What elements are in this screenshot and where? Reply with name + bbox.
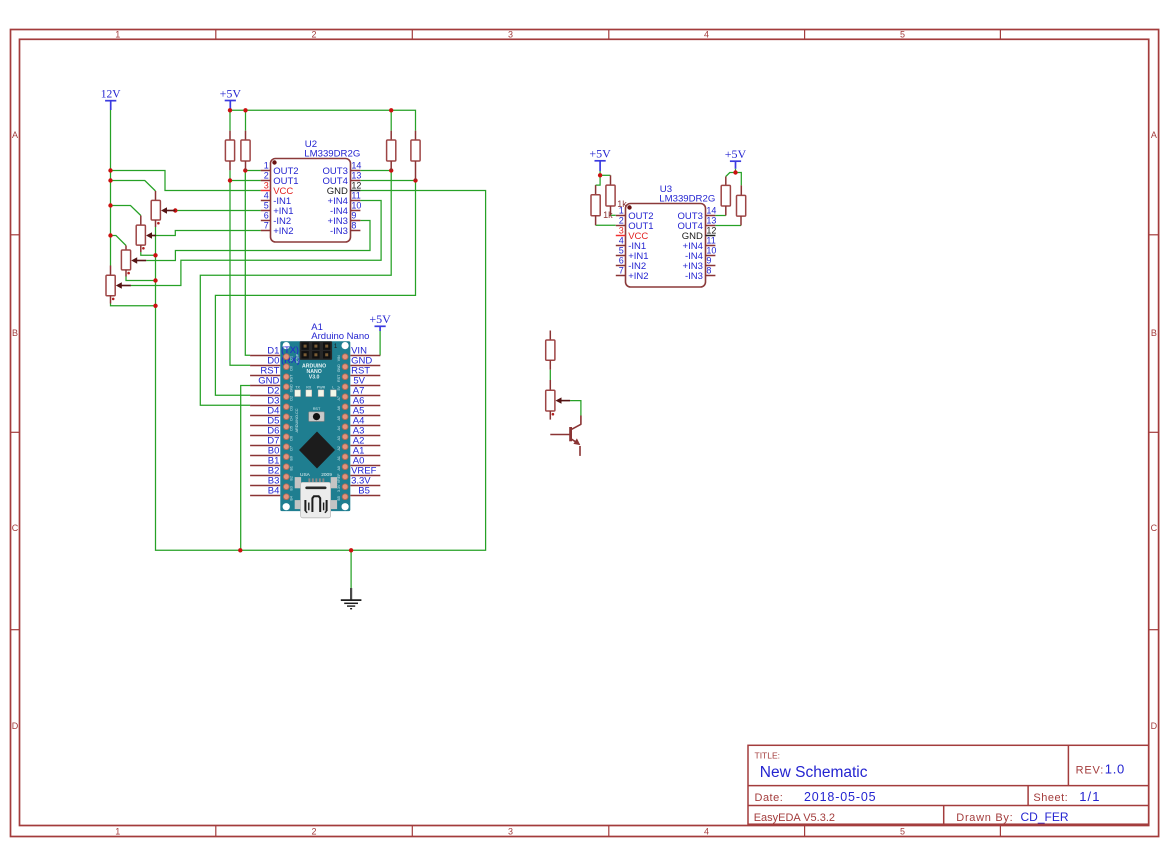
svg-text:D7: D7 — [289, 446, 293, 451]
svg-text:3: 3 — [508, 826, 513, 836]
A1 right pin B5 — [350, 485, 380, 496]
svg-text:10: 10 — [351, 201, 361, 211]
wire 12V to RP3 top — [111, 236, 127, 246]
svg-text:1.0: 1.0 — [1105, 762, 1125, 777]
power flag +5V (U2 rail) — [220, 86, 242, 110]
wire OUT1 row — [230, 180, 261, 182]
wire Arduino GND to rail — [241, 386, 250, 551]
svg-text:V3.0: V3.0 — [309, 375, 320, 381]
resistor R3 (pull-up OUT3) — [387, 131, 396, 171]
A1 left pin D1 — [250, 345, 280, 356]
A1 right pin A3 — [350, 425, 380, 436]
svg-text:6: 6 — [264, 211, 269, 221]
potentiometer RP4 — [106, 266, 131, 304]
wire RP4 wiper to U2 +IN4 pin11 — [131, 201, 381, 286]
svg-text:1: 1 — [115, 30, 120, 40]
wire RP5 wiper to Q1 collector — [570, 401, 581, 416]
A1 left pin B4 — [250, 485, 280, 496]
wire RP4 bottom to bus — [111, 304, 156, 306]
U2 pin 11 +IN4 — [328, 191, 361, 207]
svg-text:9: 9 — [706, 256, 711, 266]
U3 pin 1 OUT2 — [616, 206, 654, 222]
A1 right pin VIN — [350, 345, 380, 356]
wire R8 bottom to U3 OUT4 pin13 — [715, 225, 741, 227]
svg-text:5: 5 — [900, 826, 905, 836]
svg-text:D6: D6 — [289, 436, 293, 441]
svg-text:14: 14 — [706, 206, 716, 216]
svg-text:Drawn By:: Drawn By: — [956, 812, 1013, 824]
svg-text:Sheet:: Sheet: — [1033, 792, 1068, 804]
svg-text:D0: D0 — [289, 366, 293, 371]
svg-text:11: 11 — [351, 191, 360, 201]
svg-text:8: 8 — [706, 266, 711, 276]
svg-text:RST: RST — [313, 407, 321, 411]
svg-text:B0: B0 — [289, 456, 293, 460]
wire U3 node to R7 — [726, 173, 736, 177]
transistor Q1 (NPN) — [550, 416, 581, 456]
svg-text:-IN3: -IN3 — [685, 271, 703, 282]
svg-text:C: C — [12, 523, 19, 533]
U2 pin 2 OUT1 — [261, 171, 299, 187]
svg-text:VREF: VREF — [337, 473, 341, 483]
svg-text:New Schematic: New Schematic — [760, 764, 868, 781]
svg-text:D4: D4 — [289, 416, 293, 421]
wire rail to R2 — [245, 110, 247, 130]
svg-text:VIN: VIN — [337, 355, 341, 361]
svg-text:6: 6 — [619, 256, 624, 266]
svg-text:A0: A0 — [337, 466, 341, 470]
svg-text:1: 1 — [334, 343, 338, 350]
svg-text:8: 8 — [351, 221, 356, 231]
wire U3 node to R6 — [600, 174, 610, 176]
wire ground bus / bottom rail / U2 GND pin12 — [156, 191, 486, 551]
U2 pin 3 VCC — [261, 181, 294, 197]
svg-text:A: A — [1151, 130, 1157, 140]
svg-text:4: 4 — [264, 191, 269, 201]
A1 left pin B1 — [250, 455, 280, 466]
op-amp comparator U3 LM339DR2G body — [626, 204, 706, 288]
svg-text:EasyEDA V5.3.2: EasyEDA V5.3.2 — [754, 812, 835, 824]
wire 12V to RP2 top — [111, 206, 141, 216]
svg-text:GND: GND — [289, 384, 293, 392]
resistor R5 1k (U3 OUT1 pull-up) — [591, 185, 600, 225]
potentiometer RP3 — [121, 246, 146, 277]
svg-text:(TX): (TX) — [281, 345, 299, 355]
U2 pin 8 -IN3 — [330, 221, 360, 237]
wire R9 to RP5 — [549, 370, 551, 380]
A1 right pin 3.3V — [350, 475, 380, 486]
U3 pin 3 VCC — [616, 226, 649, 242]
wire 12V vertical line — [110, 110, 112, 266]
A1 left pin B2 — [250, 465, 280, 476]
svg-text:RST: RST — [337, 374, 341, 382]
power flag +5V (Arduino VIN) — [369, 312, 391, 331]
U3 pin 11 +IN4 — [683, 236, 716, 252]
wire U3 +5V left node — [599, 171, 601, 175]
wire R2 bottom to U2 OUT2 pin1 and Arduino D1 — [245, 171, 250, 356]
svg-text:2: 2 — [619, 216, 624, 226]
svg-text:D1: D1 — [289, 356, 293, 361]
wire rail to R1 — [229, 110, 231, 130]
svg-text:GND: GND — [337, 364, 341, 372]
A1 right pin A2 — [350, 435, 380, 446]
wire rail to R3 — [390, 110, 392, 130]
resistor R7 (U3 OUT3 pull-up) — [721, 177, 730, 216]
U3 pin 12 GND — [682, 226, 717, 242]
A1 right pin GND — [350, 355, 380, 366]
svg-text:Arduino Nano: Arduino Nano — [311, 331, 369, 342]
wire RP3 bottom to bus — [126, 277, 156, 281]
svg-text:B2: B2 — [289, 476, 293, 480]
A1 right pin 5V — [350, 375, 380, 386]
A1 left pin D6 — [250, 425, 280, 436]
svg-text:1: 1 — [264, 161, 269, 171]
svg-text:1: 1 — [619, 206, 624, 216]
A1 Arduino Nano board — [280, 341, 350, 518]
wire R6 bottom to U3 OUT2 pin1 — [611, 214, 616, 216]
border row letters A-D — [12, 130, 1158, 731]
A1 right pin A6 — [350, 395, 380, 406]
potentiometer RP1 — [151, 191, 175, 227]
svg-text:5: 5 — [264, 201, 269, 211]
svg-text:TITLE:: TITLE: — [755, 751, 781, 761]
svg-text:2009: 2009 — [321, 472, 332, 478]
svg-text:1/1: 1/1 — [1079, 789, 1100, 804]
U3 pin 4 -IN1 — [616, 236, 646, 252]
svg-text:RST: RST — [289, 374, 293, 382]
svg-text:A5: A5 — [337, 416, 341, 420]
border ruler column ticks — [216, 30, 1001, 837]
U3 pin 13 OUT4 — [678, 216, 717, 232]
wire 12V to U2 VCC pin3 — [111, 171, 261, 191]
svg-text:3.3V: 3.3V — [337, 484, 341, 492]
svg-text:4: 4 — [704, 30, 709, 40]
wire +5V to Arduino VIN — [379, 331, 381, 356]
U2 pin 5 +IN1 — [261, 201, 294, 217]
A1 left pin D2 — [250, 385, 280, 396]
potentiometer RP5 (transistor branch) — [546, 380, 570, 420]
U3 pin 9 +IN3 — [683, 256, 716, 272]
svg-text:7: 7 — [619, 266, 624, 276]
wire R5 bottom to U3 OUT1 pin2 — [596, 224, 616, 226]
resistor R8 (U3 OUT4 pull-up) — [737, 185, 746, 225]
potentiometer RP2 — [136, 216, 156, 253]
svg-text:B: B — [12, 328, 18, 338]
A1 right pin A0 — [350, 455, 380, 466]
svg-text:13: 13 — [706, 216, 716, 226]
svg-text:2: 2 — [311, 826, 316, 836]
U3 pin 7 +IN2 — [616, 266, 649, 282]
svg-text:A6: A6 — [337, 406, 341, 410]
U2 pin 9 +IN3 — [328, 211, 361, 227]
svg-text:5: 5 — [900, 30, 905, 40]
resistor R1 (pull-up OUT1) — [225, 131, 234, 171]
U2 pin 6 -IN2 — [261, 211, 291, 227]
svg-text:13: 13 — [351, 171, 361, 181]
svg-text:LM339DR2G: LM339DR2G — [304, 148, 360, 159]
svg-text:12: 12 — [351, 181, 361, 191]
A1 left pin B0 — [250, 445, 280, 456]
U2 pin 10 -IN4 — [330, 201, 361, 217]
resistor R4 (pull-up OUT4) — [411, 131, 420, 181]
U3 pin 5 +IN1 — [616, 246, 649, 262]
svg-text:D: D — [12, 721, 19, 731]
A1 left pin D7 — [250, 435, 280, 446]
svg-text:+5V: +5V — [589, 147, 611, 161]
power flag +5V (U3 right) — [725, 147, 747, 169]
wire RP1 wiper to U2 +IN1 pin5 — [175, 210, 260, 212]
svg-text:D5: D5 — [289, 426, 293, 431]
svg-text:2: 2 — [311, 30, 316, 40]
U3 pin 14 OUT3 — [678, 206, 717, 222]
A1 left pin RST — [250, 365, 280, 376]
svg-text:D3: D3 — [289, 406, 293, 411]
svg-text:TX: TX — [295, 386, 300, 390]
wire RP2 wiper to U2 +IN2 pin7 — [156, 231, 261, 236]
svg-text:B5: B5 — [358, 485, 370, 496]
border ruler row ticks — [11, 235, 1159, 630]
wire RP3 wiper to U2 +IN3 pin9 — [146, 221, 370, 261]
svg-text:B3: B3 — [289, 486, 293, 490]
A1 left pin D5 — [250, 415, 280, 426]
resistor R6 1k (U3 OUT2 pull-up) — [606, 175, 615, 215]
A1 right pin A7 — [350, 385, 380, 396]
ground symbol — [341, 588, 362, 609]
svg-text:1k: 1k — [603, 210, 613, 220]
svg-text:A3: A3 — [337, 436, 341, 440]
power flag 12V — [101, 89, 122, 111]
resistor R9 (transistor branch) — [546, 331, 555, 370]
A1 right pin A4 — [350, 415, 380, 426]
svg-text:4: 4 — [704, 826, 709, 836]
svg-text:1: 1 — [115, 826, 120, 836]
U3 pin 10 -IN4 — [685, 246, 716, 262]
wire 12V to RP1 top — [111, 181, 156, 192]
svg-text:ICSP: ICSP — [294, 354, 299, 364]
svg-text:+IN2: +IN2 — [273, 226, 293, 237]
U3 pin 6 -IN2 — [616, 256, 646, 272]
svg-text:+IN2: +IN2 — [628, 271, 648, 282]
svg-text:ARDUINO.CC: ARDUINO.CC — [295, 408, 299, 432]
svg-text:11: 11 — [706, 236, 715, 246]
wire R4 bottom to U2 OUT4 pin13 and Arduino D2 — [215, 180, 415, 395]
wire R1 bottom to U2 OUT1 pin2 and Arduino D0 — [230, 170, 250, 365]
svg-text:Date:: Date: — [755, 792, 784, 804]
wire R3 bottom to U2 OUT3 pin14 and Arduino D3 — [200, 170, 391, 405]
svg-text:LM339DR2G: LM339DR2G — [659, 193, 715, 204]
U3 pin 8 -IN3 — [685, 266, 715, 282]
A1 left pin GND — [250, 375, 280, 386]
wire ground stem — [350, 550, 352, 589]
svg-text:A7: A7 — [337, 396, 341, 400]
svg-text:B4: B4 — [268, 485, 280, 496]
border column numbers 1-5 — [115, 30, 905, 837]
svg-text:5V: 5V — [337, 386, 341, 391]
svg-text:12V: 12V — [101, 89, 122, 101]
svg-text:A1: A1 — [337, 456, 341, 460]
svg-text:B4: B4 — [289, 496, 293, 500]
U2 pin 13 OUT4 — [323, 171, 362, 187]
svg-text:-IN3: -IN3 — [330, 226, 348, 237]
wire RP2 bottom to bus — [141, 252, 156, 255]
svg-text:4: 4 — [619, 236, 624, 246]
title block frame — [748, 745, 1149, 824]
A1 left pin D0 — [250, 355, 280, 366]
A1 right pin VREF — [350, 465, 380, 476]
svg-text:5: 5 — [619, 246, 624, 256]
U2 pin 4 -IN1 — [261, 191, 291, 207]
svg-text:3: 3 — [619, 226, 624, 236]
svg-text:B1: B1 — [289, 466, 293, 470]
U2 pin 14 OUT3 — [323, 161, 362, 177]
svg-text:+5V: +5V — [220, 86, 242, 100]
power flag +5V (U3 left) — [589, 147, 611, 171]
A1 right pin A1 — [350, 445, 380, 456]
U2 pin 7 +IN2 — [261, 221, 294, 237]
svg-text:B: B — [1151, 328, 1157, 338]
wire OUT3 row — [361, 170, 392, 172]
svg-text:PWR: PWR — [317, 386, 326, 390]
svg-text:B5: B5 — [337, 496, 341, 500]
svg-text:2: 2 — [264, 171, 269, 181]
svg-text:9: 9 — [351, 211, 356, 221]
U2 pin 1 OUT2 — [261, 161, 299, 177]
A1 right pin RST — [350, 365, 380, 376]
wire U3 +5V right node — [735, 169, 737, 173]
svg-text:3: 3 — [508, 30, 513, 40]
svg-text:14: 14 — [351, 161, 361, 171]
svg-text:2018-05-05: 2018-05-05 — [804, 790, 876, 804]
svg-text:REV:: REV: — [1076, 765, 1104, 777]
svg-text:CD_FER: CD_FER — [1021, 810, 1069, 824]
svg-text:RX: RX — [306, 386, 312, 390]
svg-text:L: L — [332, 386, 334, 390]
svg-text:A4: A4 — [337, 426, 341, 430]
svg-text:A2: A2 — [337, 446, 341, 450]
wire U3 node to R8 — [736, 173, 742, 186]
svg-text:+5V: +5V — [725, 147, 747, 161]
op-amp comparator U2 LM339DR2G body — [271, 159, 351, 243]
A1 right pin A5 — [350, 405, 380, 416]
A1 left pin D3 — [250, 395, 280, 406]
U2 pin 12 GND — [327, 181, 362, 197]
wire OUT4 row — [361, 180, 416, 182]
svg-text:USA: USA — [300, 472, 311, 478]
wire U3 node to R5 — [596, 175, 601, 185]
wire +5V rail — [230, 110, 416, 130]
svg-text:10: 10 — [706, 246, 716, 256]
svg-text:C: C — [1151, 523, 1158, 533]
resistor R2 (pull-up OUT2) — [241, 131, 250, 171]
svg-text:A: A — [12, 130, 18, 140]
svg-text:12: 12 — [706, 226, 716, 236]
wire OUT2 row — [245, 170, 260, 172]
A1 left pin D4 — [250, 405, 280, 416]
svg-text:3: 3 — [264, 181, 269, 191]
A1 left pin B3 — [250, 475, 280, 486]
svg-text:D: D — [1151, 721, 1158, 731]
U3 pin 2 OUT1 — [616, 216, 654, 232]
wire R7 bottom to U3 OUT3 pin14 — [715, 215, 725, 217]
svg-text:+5V: +5V — [369, 312, 391, 326]
svg-text:D2: D2 — [289, 396, 293, 401]
svg-text:7: 7 — [264, 221, 269, 231]
